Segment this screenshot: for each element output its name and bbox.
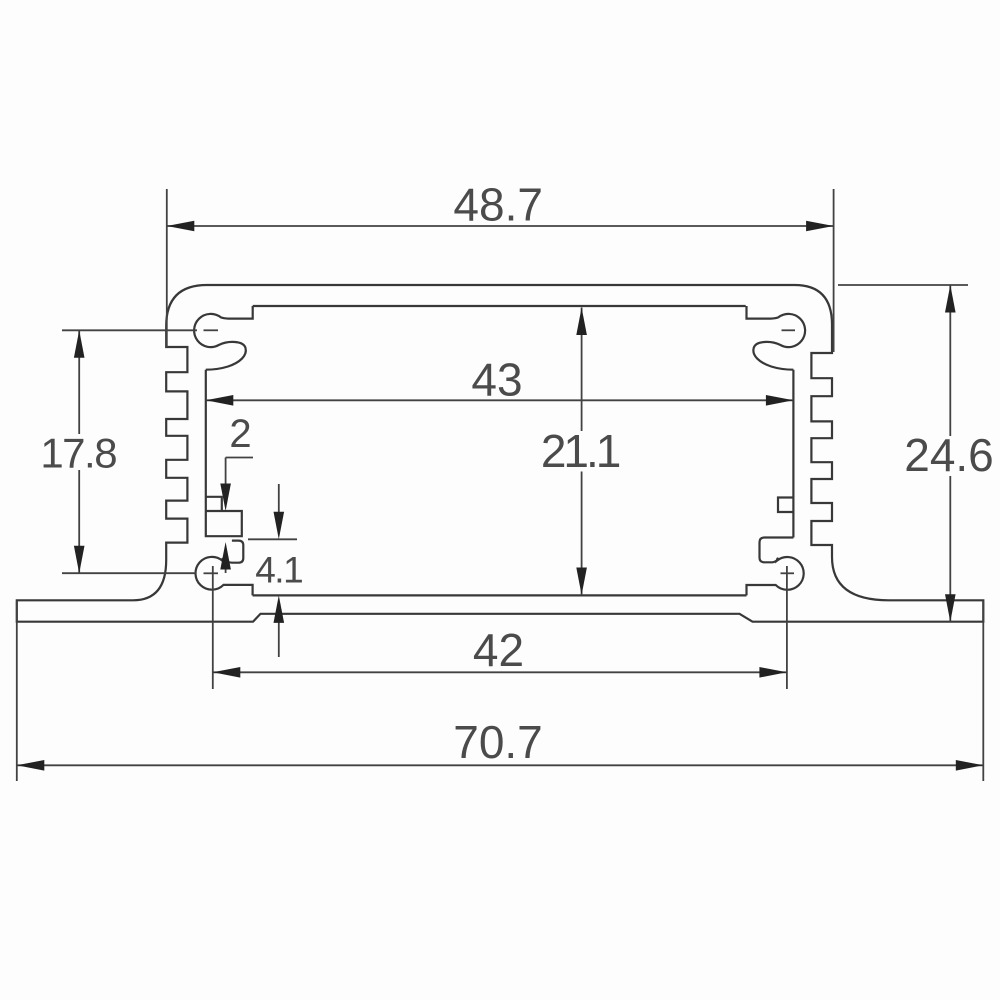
- arrowhead 4.1 down (outside): [274, 512, 285, 540]
- arrowhead 42 right: [759, 667, 787, 678]
- arrowhead 70.7 right: [956, 760, 984, 771]
- dim 42 dimension line: [213, 671, 787, 673]
- dim 24.6 dimension line: [949, 285, 951, 622]
- svg-text:21.1: 21.1: [541, 425, 620, 477]
- dim 43 dimension line: [206, 399, 794, 401]
- dim 70.7 dimension line: [17, 764, 984, 766]
- dim 4.1 dimension line: [278, 484, 280, 657]
- dim 17.8 dimension line: [78, 330, 80, 573]
- arrowhead 48.7 left: [167, 221, 195, 232]
- svg-text:42: 42: [473, 624, 524, 676]
- arrowhead 21.1 down: [576, 568, 587, 596]
- boss TR (screw port, top-right): [747, 306, 806, 370]
- center mark boss TR: [782, 329, 796, 331]
- right inner wall: [792, 370, 794, 538]
- dim 4.1 extension line: [248, 538, 297, 540]
- boss BL (screw port, bottom-left) with hook: [196, 541, 253, 596]
- arrowhead 42 left: [213, 667, 241, 678]
- right PCB rail tab: [778, 498, 793, 513]
- arrowhead 48.7 right: [806, 221, 834, 232]
- arrowhead 4.1 up (outside): [274, 595, 285, 623]
- cavity floor line: [253, 594, 747, 596]
- svg-text:17.8: 17.8: [40, 429, 116, 476]
- svg-text:24.6: 24.6: [904, 429, 994, 481]
- dim 17.8 extension line top: [62, 329, 197, 331]
- inner ceiling line: [253, 305, 746, 307]
- arrowhead 17.8 up: [74, 330, 85, 358]
- dim 17.8 extension line bottom: [62, 572, 196, 574]
- arrowhead 24.6 down: [945, 594, 956, 622]
- dim 42 extension line left: [212, 566, 214, 689]
- arrowhead 2 up (outside): [220, 542, 231, 570]
- outer profile of extrusion body with flanges and fins: [17, 285, 984, 622]
- arrowhead 70.7 left: [17, 760, 45, 771]
- arrowhead 43 right: [766, 395, 794, 406]
- dim 24.6 extension line top: [838, 284, 968, 286]
- dim 48.7 dimension line: [167, 225, 834, 227]
- boss TL (screw port, top-left): [194, 306, 253, 370]
- boss BR (screw port, bottom-right) with jaw block: [747, 538, 804, 596]
- dim 42 extension line right: [786, 566, 788, 689]
- arrowhead 21.1 up: [576, 308, 587, 336]
- left PCB rail tab: [206, 497, 222, 511]
- svg-text:2: 2: [229, 412, 251, 456]
- arrowhead 24.6 up: [945, 285, 956, 313]
- arrowhead 43 left: [206, 395, 234, 406]
- center mark boss TL: [204, 329, 219, 331]
- left inner wall: [205, 370, 207, 511]
- center mark boss BR: [781, 572, 795, 574]
- svg-text:4.1: 4.1: [255, 550, 302, 591]
- svg-text:43: 43: [471, 354, 522, 406]
- arrowhead 17.8 down: [74, 546, 85, 574]
- dim 21.1 dimension line: [581, 308, 583, 596]
- dim 48.7 extension line right: [833, 189, 835, 352]
- dim 2 dimension line: [226, 458, 253, 574]
- center mark boss BL: [204, 572, 219, 574]
- dim 48.7 extension line left: [166, 189, 168, 347]
- left rail block (2mm): [206, 511, 242, 536]
- svg-text:48.7: 48.7: [453, 178, 543, 230]
- dim 70.7 extension line left: [16, 601, 18, 781]
- svg-text:70.7: 70.7: [453, 716, 543, 768]
- arrowhead 2 down (outside): [220, 484, 231, 512]
- dim 70.7 extension line right: [982, 601, 984, 781]
